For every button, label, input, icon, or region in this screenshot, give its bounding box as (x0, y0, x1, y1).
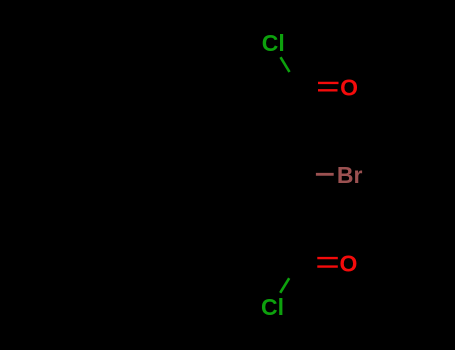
svg-text:Br: Br (337, 162, 363, 188)
svg-text:O: O (340, 74, 358, 100)
svg-text:Cl: Cl (262, 30, 285, 56)
svg-text:Cl: Cl (261, 294, 284, 320)
svg-text:O: O (340, 250, 358, 276)
